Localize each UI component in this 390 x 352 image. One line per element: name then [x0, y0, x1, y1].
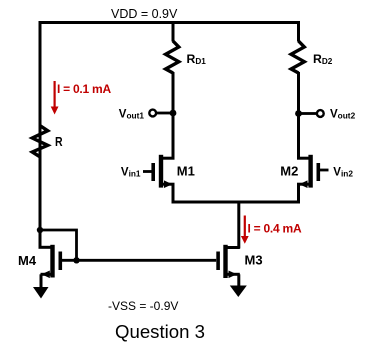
label Vin1: [121, 166, 141, 178]
resistor R: [32, 125, 47, 156]
label M4: [18, 253, 37, 268]
label Vout2: [330, 108, 356, 120]
wire VDD top rail: [39, 21, 301, 24]
label Vout1: [119, 108, 145, 120]
label RD2: [313, 52, 333, 66]
label -VSS: [108, 299, 178, 313]
svg-text:-VSS = -0.9V: -VSS = -0.9V: [108, 299, 178, 313]
svg-text:I = 0.1 mA: I = 0.1 mA: [57, 82, 111, 96]
resistor RD1: [166, 21, 179, 73]
resistor RD2: [291, 21, 304, 73]
svg-text:VDD = 0.9V: VDD = 0.9V: [111, 7, 178, 21]
svg-text:Vin1: Vin1: [121, 166, 141, 178]
svg-text:M3: M3: [245, 253, 263, 268]
transistor M1: [143, 155, 175, 204]
current arrow I = 0.1 mA: [51, 81, 59, 115]
svg-text:M1: M1: [177, 163, 195, 178]
node Vout1 terminal: [149, 110, 176, 117]
node junction dot M4 gate: [73, 257, 79, 263]
label I = 0.1 mA: [57, 82, 111, 96]
svg-text:Vout2: Vout2: [330, 108, 356, 120]
label Vin2: [333, 166, 353, 178]
svg-text:Question 3: Question 3: [115, 321, 205, 342]
svg-text:RD2: RD2: [313, 52, 333, 66]
wire RD1 to M1 drain: [172, 72, 175, 160]
power VSS arrow under M4: [33, 287, 49, 299]
svg-text:R: R: [55, 135, 63, 149]
transistor M4: [39, 245, 61, 288]
wire M4 diode loop: [40, 230, 77, 260]
wire left branch vertical: [39, 21, 42, 249]
transistor M3: [218, 245, 240, 287]
svg-text:RD1: RD1: [187, 52, 207, 66]
power VSS arrow under M3: [230, 286, 247, 298]
label R: [55, 135, 63, 149]
label M2: [280, 163, 298, 178]
wire common source rail: [172, 201, 301, 204]
current arrow I = 0.4 mA: [241, 216, 249, 244]
svg-text:Vin2: Vin2: [333, 166, 353, 178]
node junction dot left wire: [37, 227, 43, 233]
label M1: [177, 163, 195, 178]
label Question 3: [115, 321, 205, 342]
transistor M2: [297, 155, 329, 204]
svg-text:M2: M2: [280, 163, 298, 178]
wire M4 gate bus to M3 gate: [62, 259, 216, 262]
svg-text:I = 0.4 mA: I = 0.4 mA: [248, 222, 302, 236]
label M3: [245, 253, 263, 268]
wire tail to M3 drain: [237, 202, 240, 249]
label RD1: [187, 52, 207, 66]
svg-text:M4: M4: [18, 253, 37, 268]
svg-text:Vout1: Vout1: [119, 108, 145, 120]
node VDD label: [111, 7, 178, 21]
wire RD2 to M2 drain: [297, 72, 300, 160]
label I = 0.4 mA: [248, 222, 302, 236]
node Vout2 terminal: [295, 110, 324, 117]
